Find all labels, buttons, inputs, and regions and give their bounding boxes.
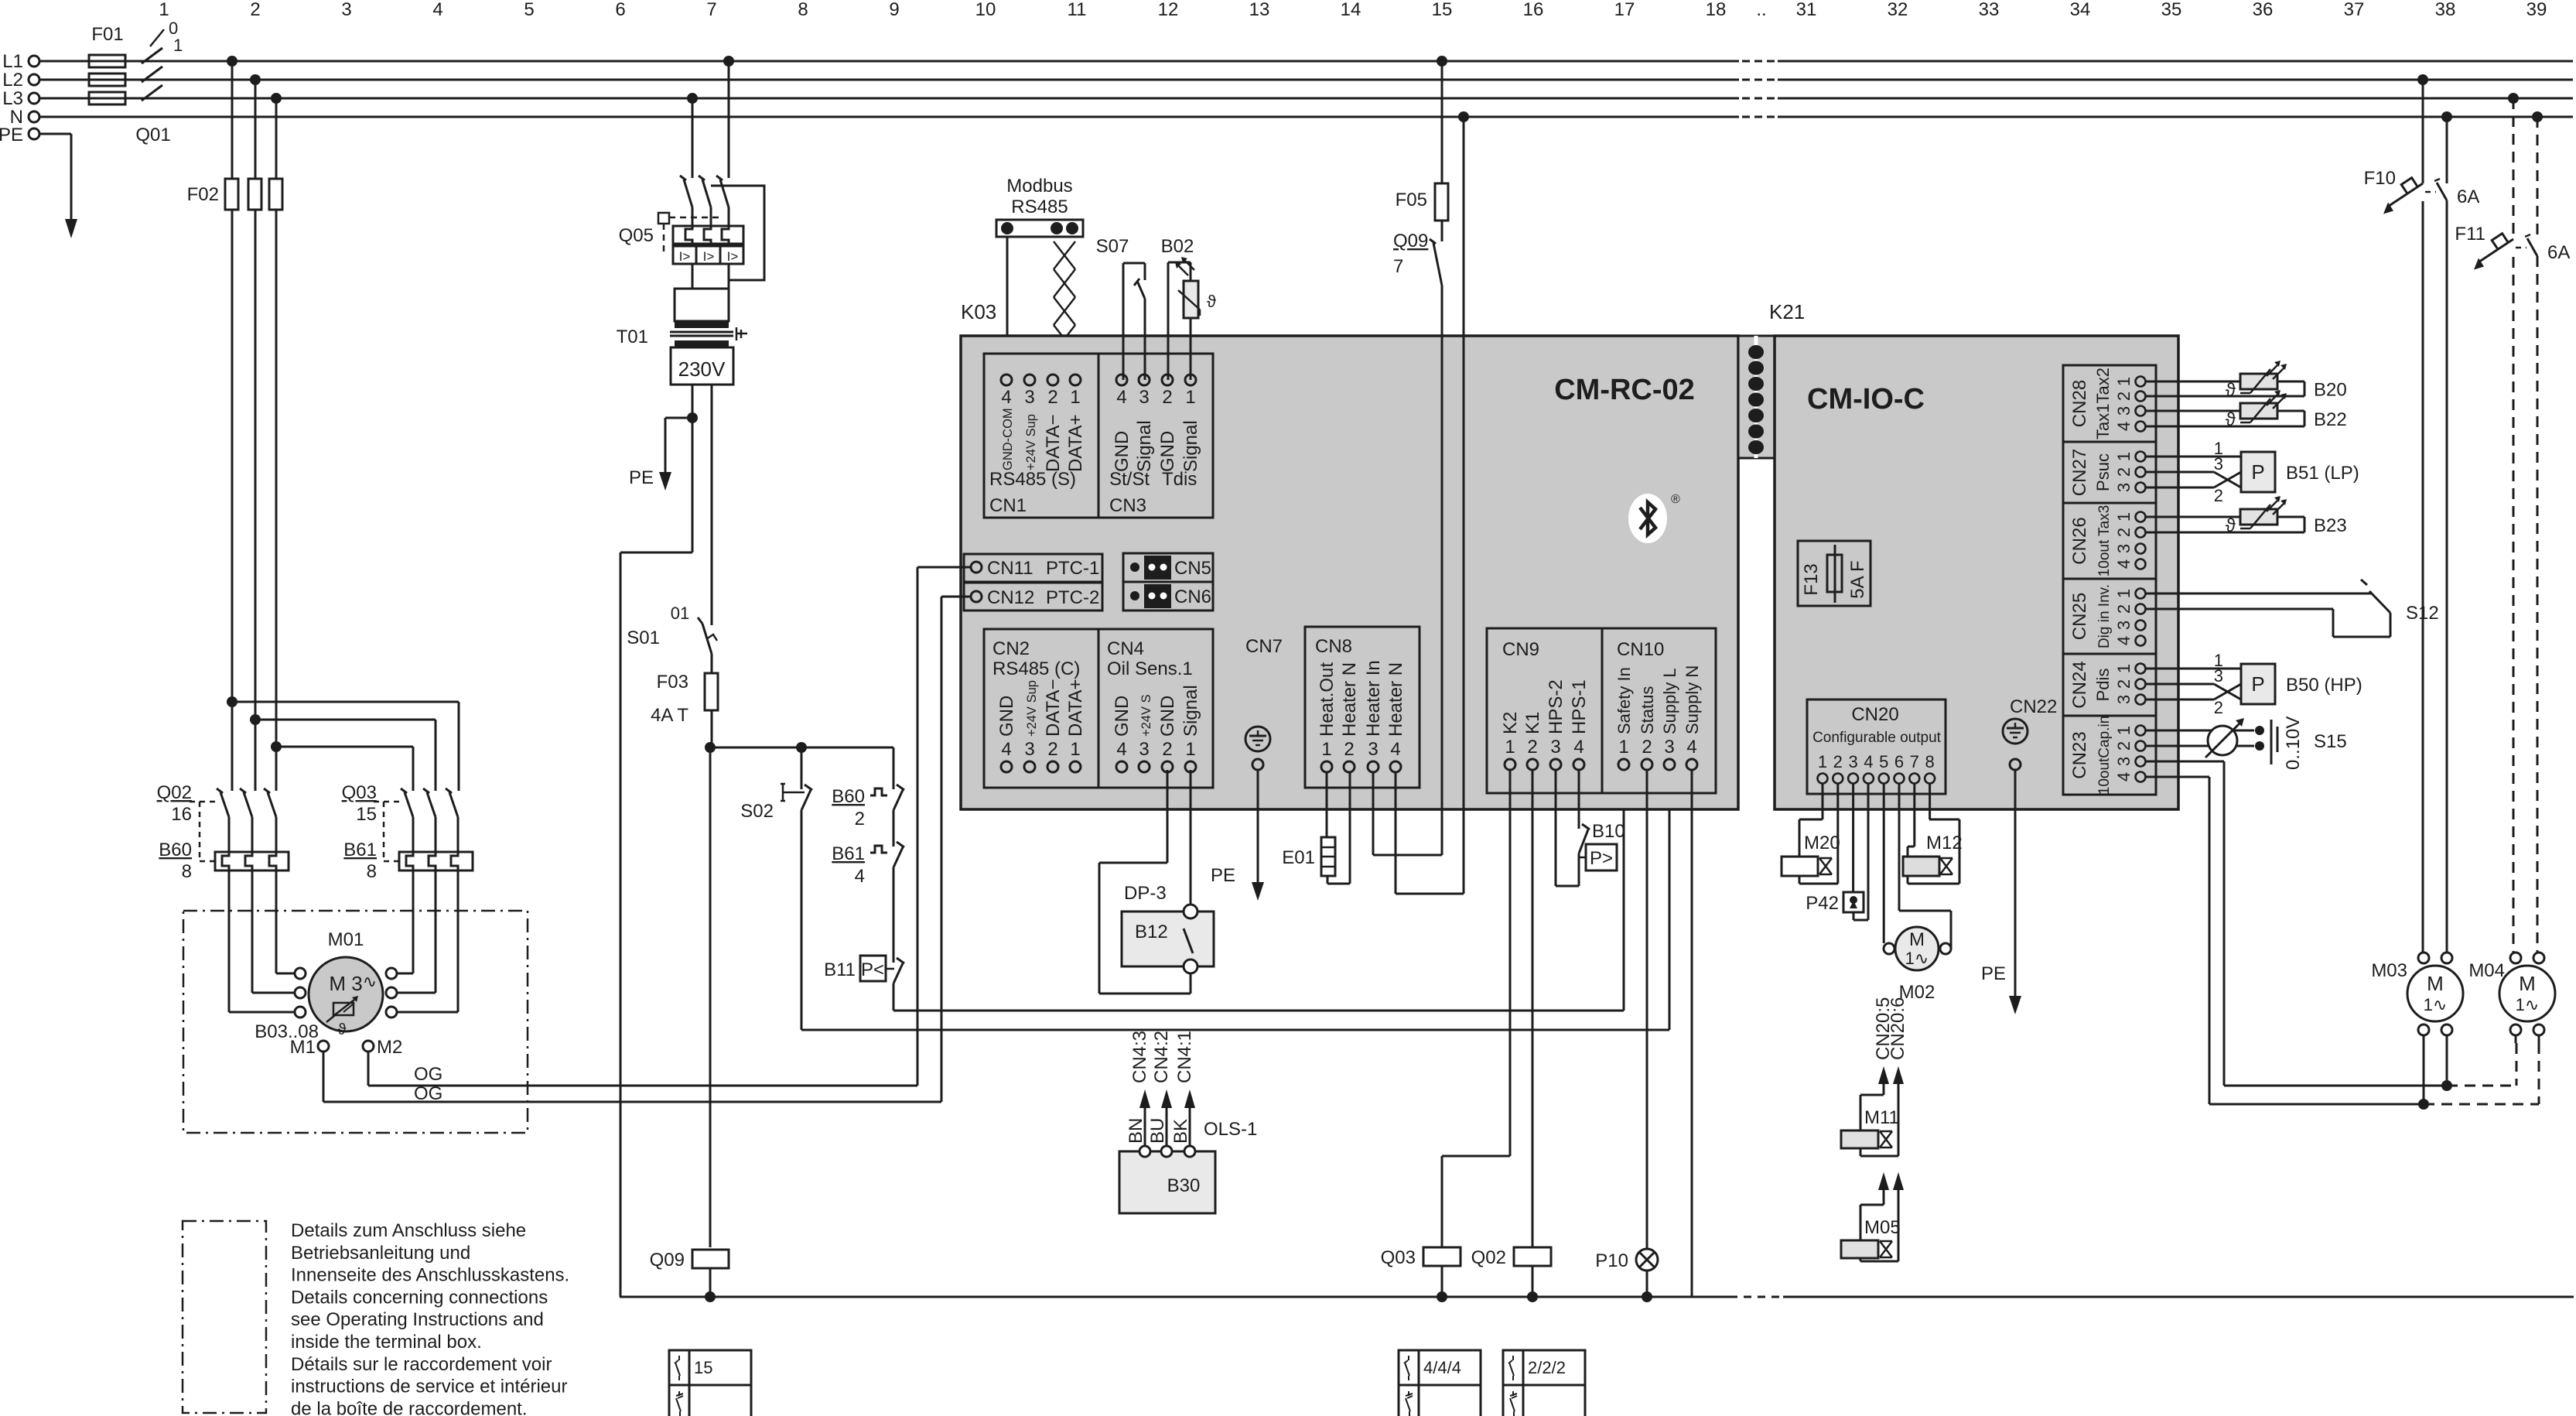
solenoid valve M20: [1782, 783, 1840, 884]
fuse F13 5A F: [1798, 541, 1871, 606]
svg-text:B60: B60: [159, 840, 192, 860]
svg-text:CN4:2: CN4:2: [1151, 1031, 1172, 1083]
title CM-IO-C: [1807, 383, 1925, 416]
twisted pair Modbus DATA to CN1: [1054, 241, 1075, 375]
svg-text:Q01: Q01: [135, 125, 170, 145]
svg-text:F05: F05: [1396, 190, 1427, 210]
svg-text:GND: GND: [1112, 696, 1133, 737]
svg-text:F13: F13: [1801, 563, 1822, 595]
svg-text:∿: ∿: [363, 972, 377, 991]
svg-text:OG: OG: [414, 1064, 442, 1085]
svg-text:E01: E01: [1282, 847, 1315, 868]
svg-text:4: 4: [1390, 739, 1400, 760]
svg-text:3: 3: [2114, 544, 2134, 553]
connector CN9 CN10 block: [1487, 628, 1716, 793]
svg-text:RS485: RS485: [1011, 197, 1068, 217]
svg-text:GND: GND: [1157, 431, 1178, 472]
svg-text:K21: K21: [1769, 300, 1805, 323]
svg-text:CN4:1: CN4:1: [1174, 1031, 1195, 1083]
wire CN23:4 fan speed line 2: [2146, 777, 2539, 1110]
svg-text:M: M: [1909, 929, 1925, 950]
svg-text:PE: PE: [1981, 963, 2006, 984]
svg-text:P10: P10: [1595, 1250, 1628, 1271]
svg-text:34: 34: [2070, 0, 2091, 20]
svg-text:B23: B23: [2314, 515, 2347, 536]
svg-text:4: 4: [2114, 772, 2134, 782]
transformer K21 coupling: [1738, 336, 1775, 458]
svg-text:CN28: CN28: [2069, 380, 2090, 427]
svg-text:Tax1Tax2: Tax1Tax2: [2093, 368, 2113, 440]
svg-text:4/4/4: 4/4/4: [1423, 1358, 1461, 1377]
svg-text:M 3: M 3: [329, 972, 362, 995]
svg-text:PTC-2: PTC-2: [1046, 587, 1099, 608]
svg-text:PTC-1: PTC-1: [1046, 558, 1099, 579]
svg-text:1: 1: [1185, 739, 1195, 760]
svg-text:5: 5: [1879, 752, 1888, 771]
Bluetooth logo: [1628, 493, 1680, 543]
svg-text:16: 16: [1523, 0, 1544, 20]
svg-text:230V: 230V: [678, 357, 726, 381]
svg-text:DATA−: DATA−: [1043, 679, 1064, 737]
pressure transmitter B50 HP: [2146, 651, 2362, 717]
connector CN28: [2063, 365, 2156, 442]
connector CN1 CN3 block: [984, 354, 1213, 518]
contactor coil Q09: [650, 1250, 729, 1302]
wire OG M1 to CN12: [323, 597, 971, 1104]
svg-text:Psuc: Psuc: [2093, 453, 2113, 491]
svg-text:L1: L1: [2, 51, 23, 72]
svg-text:B02: B02: [1161, 236, 1194, 257]
svg-text:S15: S15: [2314, 731, 2347, 752]
svg-text:3: 3: [1550, 737, 1560, 758]
svg-text:GND: GND: [996, 696, 1017, 737]
wire N to CN8:4 Heater N: [1396, 111, 1469, 894]
net PE terminal with earth arrow: [0, 125, 77, 238]
contact B60/2: [832, 747, 904, 847]
svg-text:2: 2: [2114, 392, 2134, 401]
svg-text:Heater In: Heater In: [1363, 660, 1384, 737]
svg-text:BN: BN: [1126, 1118, 1146, 1144]
svg-text:Signal: Signal: [1134, 420, 1155, 472]
motor M01 compressor: [255, 929, 402, 1058]
svg-text:3: 3: [2214, 454, 2223, 474]
svg-text:CN20: CN20: [1851, 704, 1898, 725]
svg-text:10: 10: [975, 0, 996, 20]
transformer T01: [617, 264, 747, 385]
svg-text:36: 36: [2253, 0, 2274, 20]
oil sensor B30 OLS-1: [1119, 1031, 1257, 1213]
svg-text:CN5: CN5: [1174, 558, 1211, 579]
svg-text:see Operating Instructions and: see Operating Instructions and: [291, 1309, 544, 1330]
net L2 rail: [2, 70, 2573, 91]
svg-text:2: 2: [1833, 752, 1843, 771]
svg-text:Q09: Q09: [650, 1250, 685, 1271]
signal lamp P10: [1595, 1249, 1658, 1302]
svg-text:PE: PE: [629, 467, 654, 488]
svg-text:+24V S: +24V S: [1139, 694, 1153, 737]
svg-text:S02: S02: [740, 801, 774, 822]
svg-text:Innenseite des Anschlusskasten: Innenseite des Anschlusskastens.: [291, 1265, 569, 1286]
svg-text:Q03: Q03: [342, 782, 377, 803]
jumper CN5: [1123, 553, 1213, 582]
wire CN7 to PE arrow: [1211, 770, 1264, 901]
svg-text:38: 38: [2435, 0, 2456, 20]
svg-text:CM-RC-02: CM-RC-02: [1554, 374, 1695, 406]
svg-text:8: 8: [1925, 752, 1934, 771]
contact Q09/7: [1393, 231, 1442, 287]
terminal CN22 earth: [2003, 696, 2057, 770]
svg-text:7: 7: [1910, 752, 1919, 771]
svg-text:M05: M05: [1864, 1217, 1901, 1238]
label K03: [961, 300, 996, 323]
wire L1 to F02.1 and fuse F02.1: [225, 56, 238, 791]
contact table Q03: [1399, 1350, 1481, 1416]
svg-text:CN10: CN10: [1617, 639, 1664, 660]
wire CN22 to PE arrow: [1981, 770, 2021, 1014]
svg-text:OLS-1: OLS-1: [1204, 1119, 1257, 1140]
svg-text:P<: P<: [861, 959, 884, 980]
svg-text:2: 2: [855, 809, 865, 829]
svg-text:16: 16: [171, 804, 192, 825]
svg-text:3: 3: [1848, 752, 1857, 771]
disconnect switch Q01: [135, 19, 183, 145]
svg-text:1: 1: [1321, 739, 1331, 760]
svg-text:B11: B11: [824, 959, 856, 980]
svg-text:2: 2: [2214, 698, 2223, 717]
svg-text:7: 7: [706, 0, 716, 20]
svg-text:5: 5: [524, 0, 534, 20]
svg-text:OG: OG: [414, 1083, 442, 1104]
svg-text:39: 39: [2526, 0, 2547, 20]
connector CN26: [2063, 503, 2156, 579]
svg-text:Q02: Q02: [1471, 1247, 1506, 1268]
svg-text:1: 1: [2114, 512, 2134, 522]
svg-text:6: 6: [1894, 752, 1904, 771]
svg-text:CN7: CN7: [1245, 636, 1283, 657]
wire N to M04 dashed: [2532, 111, 2543, 953]
oil level switch P42: [1806, 783, 1868, 920]
switch S02: [740, 747, 812, 1030]
svg-text:1: 1: [2114, 589, 2134, 598]
wire L2 to F02.2 and fuse F02.2: [248, 74, 261, 791]
svg-text:1: 1: [2114, 664, 2134, 673]
wire Q02.1 to M01: [229, 870, 295, 1012]
net L1 rail: [2, 51, 2573, 72]
wire K1 to coil Q02: [1532, 770, 1534, 1247]
svg-text:0..10V: 0..10V: [2283, 717, 2304, 770]
net L3 rail: [2, 88, 2573, 109]
svg-text:4: 4: [2114, 559, 2134, 569]
svg-text:1: 1: [1070, 739, 1080, 760]
svg-text:2: 2: [1047, 739, 1057, 760]
svg-text:K2: K2: [1500, 712, 1521, 734]
legend text: [291, 1220, 569, 1416]
wire K2 to coil Q03: [1442, 770, 1510, 1247]
fan motor M04: [2468, 953, 2555, 1035]
svg-text:2: 2: [2214, 486, 2223, 505]
svg-text:B61: B61: [343, 840, 377, 860]
svg-text:2: 2: [1642, 737, 1652, 758]
svg-text:3: 3: [2214, 666, 2223, 686]
svg-text:I>: I>: [679, 249, 691, 264]
svg-text:2: 2: [1162, 387, 1172, 408]
svg-text:Signal: Signal: [1180, 420, 1201, 472]
Modbus RS485 connector: [996, 176, 1083, 237]
wire branch to Q03 pole2: [250, 714, 436, 791]
svg-text:M11: M11: [1864, 1107, 1899, 1128]
circuit breaker F11 6A: [2455, 93, 2570, 953]
svg-text:F02: F02: [187, 184, 219, 205]
wire Q02.2 to M01: [252, 870, 295, 993]
pressure transmitter B51 LP: [2146, 439, 2359, 505]
svg-text:3: 3: [1368, 739, 1378, 760]
svg-text:Supply N: Supply N: [1683, 665, 1702, 734]
wires M04 dashed: [2516, 1035, 2539, 1043]
temperature sensor B22: [2146, 390, 2347, 430]
svg-text:1: 1: [159, 0, 169, 20]
setpoint potentiometer S15 0..10V: [2146, 717, 2347, 770]
svg-text:3: 3: [1664, 737, 1674, 758]
svg-text:B61: B61: [832, 843, 865, 864]
svg-text:RS485 (C): RS485 (C): [992, 658, 1080, 679]
svg-text:CN27: CN27: [2069, 449, 2090, 496]
wire branch to Q03 pole1: [227, 696, 459, 791]
svg-text:F03: F03: [657, 672, 688, 693]
connector CN20: [1807, 699, 1946, 794]
svg-text:4: 4: [1116, 387, 1126, 408]
svg-text:15: 15: [1432, 0, 1453, 20]
svg-text:®: ®: [1671, 493, 1680, 506]
svg-text:3: 3: [1139, 739, 1149, 760]
svg-text:DATA−: DATA−: [1043, 415, 1064, 472]
svg-text:CN8: CN8: [1315, 636, 1352, 657]
svg-text:GND-COM: GND-COM: [1001, 408, 1015, 470]
wire Q02.3 to M01: [276, 870, 295, 973]
svg-text:M: M: [2427, 972, 2444, 995]
wire CN23:3 fan speed line 1: [2146, 761, 2516, 1091]
svg-text:K1: K1: [1522, 712, 1543, 734]
connector CN8 block: [1305, 627, 1420, 788]
svg-text:Configurable output: Configurable output: [1812, 730, 1942, 746]
label K21: [1769, 300, 1805, 323]
svg-text:1: 1: [1618, 737, 1628, 758]
svg-text:Q05: Q05: [619, 225, 654, 246]
label F02: [187, 184, 219, 205]
temperature sensor B23: [2146, 496, 2347, 536]
svg-text:GND: GND: [1157, 696, 1178, 737]
net N rail: [10, 107, 2573, 128]
svg-text:4: 4: [1573, 737, 1584, 758]
svg-text:Q02: Q02: [157, 782, 192, 803]
connector CN23: [2063, 716, 2156, 795]
svg-text:T01: T01: [617, 327, 648, 347]
svg-text:4: 4: [1001, 739, 1011, 760]
svg-text:5A F: 5A F: [1847, 560, 1868, 598]
svg-text:GND: GND: [1112, 431, 1133, 472]
module CM-RC-02 body: [961, 336, 1738, 809]
connector CN25: [2063, 579, 2156, 654]
svg-text:CN3: CN3: [1109, 495, 1146, 516]
bus 230V return: [620, 1296, 2574, 1298]
wire 230V return to bottom bus: [620, 418, 692, 1297]
svg-text:1∿: 1∿: [1905, 949, 1929, 968]
svg-text:S07: S07: [1096, 236, 1129, 257]
svg-text:CN4: CN4: [1107, 638, 1144, 659]
svg-text:01: 01: [671, 604, 689, 623]
connector CN2 CN4 block: [984, 629, 1213, 788]
svg-text:I>: I>: [727, 249, 739, 264]
wire N to M03: [2441, 111, 2452, 953]
svg-text:..: ..: [1756, 0, 1766, 20]
svg-text:4: 4: [1116, 739, 1126, 760]
svg-text:ϑ: ϑ: [338, 1021, 347, 1038]
svg-text:DATA+: DATA+: [1065, 415, 1086, 472]
svg-text:CN11: CN11: [987, 558, 1033, 579]
svg-text:2: 2: [1527, 737, 1537, 758]
svg-text:B50 (HP): B50 (HP): [2286, 675, 2362, 696]
wire L1 to Q05: [723, 56, 734, 178]
circuit breaker F10 6A: [2364, 74, 2480, 953]
svg-text:10outCap.in: 10outCap.in: [2096, 716, 2113, 795]
svg-text:13: 13: [1249, 0, 1270, 20]
wire L3 to F02.3 and fuse F02.3: [269, 93, 282, 791]
motor protection switch Q05: [619, 176, 764, 280]
contactor Q02 with overload B60: [157, 782, 289, 882]
fan motor M03: [2371, 953, 2463, 1035]
svg-text:Details zum Anschluss siehe: Details zum Anschluss siehe: [291, 1220, 526, 1241]
svg-text:Pdis: Pdis: [2093, 669, 2113, 702]
svg-text:B20: B20: [2314, 380, 2347, 401]
wire Q03.3 to M01: [397, 870, 458, 1012]
svg-text:CN20:6: CN20:6: [1888, 997, 1908, 1060]
svg-text:ϑ: ϑ: [2226, 380, 2236, 401]
svg-text:CN26: CN26: [2069, 517, 2090, 564]
svg-text:M: M: [2519, 972, 2536, 995]
svg-text:7: 7: [1393, 256, 1403, 277]
svg-text:6A: 6A: [2457, 186, 2479, 207]
svg-text:1: 1: [1185, 387, 1195, 408]
svg-text:M2: M2: [377, 1037, 402, 1058]
svg-text:Q09: Q09: [1393, 231, 1428, 251]
svg-text:2: 2: [2114, 467, 2134, 477]
svg-text:2: 2: [2114, 679, 2134, 689]
svg-text:1: 1: [1070, 387, 1080, 408]
solenoid valve M11 CN20:5/6: [1841, 997, 1908, 1156]
connector CN27: [2063, 442, 2156, 503]
svg-text:PE: PE: [0, 125, 23, 145]
svg-text:2: 2: [1047, 387, 1057, 408]
crankcase heater E01: [1282, 772, 1350, 884]
svg-text:St/St: St/St: [1109, 469, 1150, 490]
module CM-IO-C body: [1775, 336, 2178, 809]
svg-text:Signal: Signal: [1180, 685, 1201, 737]
svg-text:Dig in Inv.: Dig in Inv.: [2096, 584, 2113, 648]
svg-text:+24V Sup: +24V Sup: [1024, 414, 1038, 470]
temperature sensor B02 Tdis: [1161, 236, 1216, 380]
svg-text:Details concerning connections: Details concerning connections: [291, 1287, 548, 1308]
fuse F03 4A T: [651, 672, 718, 747]
svg-text:Betriebsanleitung und: Betriebsanleitung und: [291, 1243, 470, 1264]
svg-text:32: 32: [1888, 0, 1908, 20]
svg-text:1: 1: [1818, 752, 1827, 771]
svg-text:10out Tax3: 10out Tax3: [2096, 505, 2113, 577]
svg-text:M04: M04: [2468, 960, 2505, 981]
svg-text:BK: BK: [1170, 1119, 1191, 1144]
svg-text:3: 3: [1024, 387, 1034, 408]
contactor coil Q03: [1381, 1247, 1461, 1302]
svg-text:RS485 (S): RS485 (S): [989, 469, 1076, 490]
svg-text:M1: M1: [290, 1037, 316, 1058]
svg-text:2/2/2: 2/2/2: [1528, 1358, 1566, 1377]
legend dash-dot box: [183, 1221, 266, 1413]
svg-text:B22: B22: [2314, 409, 2347, 430]
svg-text:B30: B30: [1167, 1175, 1201, 1196]
svg-text:CM-IO-C: CM-IO-C: [1807, 383, 1925, 416]
svg-text:14: 14: [1341, 0, 1361, 20]
svg-text:P: P: [2251, 672, 2264, 696]
svg-text:4A T: 4A T: [651, 705, 688, 726]
contactor coil Q02: [1471, 1247, 1551, 1302]
svg-text:6A: 6A: [2547, 242, 2570, 263]
svg-text:CN4:3: CN4:3: [1129, 1031, 1150, 1083]
svg-text:CN12: CN12: [987, 587, 1034, 608]
oil pump motor M02: [1884, 783, 1951, 1003]
svg-text:4: 4: [855, 866, 865, 887]
svg-text:11: 11: [1068, 0, 1087, 20]
connector CN12 PTC-2: [964, 583, 1102, 611]
svg-text:P>: P>: [1590, 848, 1613, 869]
wire Q03.1 to M01: [397, 870, 413, 973]
svg-text:37: 37: [2344, 0, 2365, 20]
contact B61/4: [832, 842, 904, 963]
svg-text:4: 4: [2114, 422, 2134, 431]
oil differential pressure switch B12 DP-3: [1099, 770, 1214, 994]
wire Status to lamp P10: [1646, 770, 1648, 1249]
wire Modbus GND-COM to CN1:4: [1006, 237, 1009, 380]
svg-text:+24V Sup: +24V Sup: [1025, 680, 1039, 737]
svg-text:CN25: CN25: [2069, 593, 2090, 640]
switch S12: [2146, 580, 2439, 637]
svg-text:3: 3: [2114, 483, 2134, 492]
wire Supply N to bus: [1691, 770, 1693, 1297]
svg-text:3: 3: [1024, 739, 1034, 760]
svg-text:inside the terminal box.: inside the terminal box.: [291, 1332, 482, 1353]
svg-text:CN2: CN2: [992, 638, 1030, 659]
svg-text:2: 2: [2114, 604, 2134, 614]
wire T01 secondary to PE arrow: [629, 385, 698, 491]
svg-text:1: 1: [1505, 737, 1515, 758]
wire Q03.2 to M01: [397, 870, 436, 993]
compressor dash-dot boundary: [183, 911, 528, 1133]
connector CN11 PTC-1: [964, 554, 1102, 582]
svg-text:B60: B60: [832, 786, 865, 807]
svg-text:BU: BU: [1147, 1118, 1168, 1144]
svg-text:2: 2: [2114, 741, 2134, 751]
wire branch to Q03 pole3: [271, 741, 413, 791]
wires M03 to control lines: [2424, 1035, 2447, 1104]
jumper CN6: [1123, 582, 1213, 611]
svg-text:3: 3: [2114, 621, 2134, 630]
wire OG M2 to CN11: [368, 567, 971, 1086]
svg-text:Heater N: Heater N: [1339, 662, 1360, 737]
svg-text:DATA+: DATA+: [1065, 679, 1086, 737]
svg-text:2: 2: [1162, 739, 1172, 760]
svg-text:Q03: Q03: [1381, 1247, 1416, 1268]
svg-text:Supply L: Supply L: [1660, 668, 1679, 734]
svg-text:L2: L2: [2, 70, 23, 91]
wire Q09 contact to CN8:3 Heater In: [1373, 287, 1442, 855]
svg-text:Oil Sens.1: Oil Sens.1: [1107, 658, 1193, 679]
